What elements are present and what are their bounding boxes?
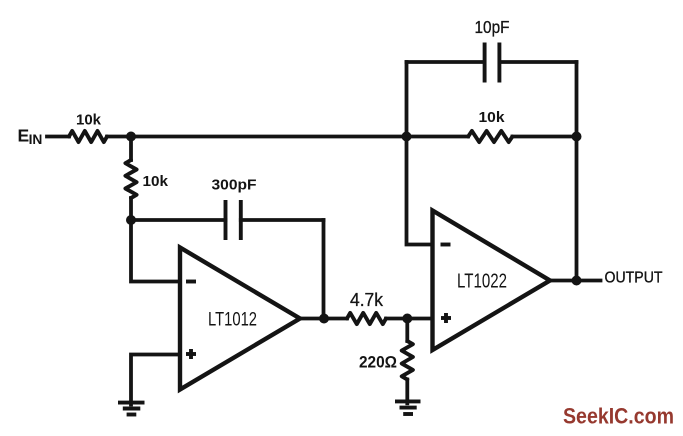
resistor R3 10k feedback [468,131,512,142]
capacitor C2 10pF [407,60,485,64]
svg-text:10k: 10k [479,109,506,126]
svg-text:LT1012: LT1012 [208,309,257,331]
U2 minus sign [441,243,451,247]
wire LT1022 output [550,279,601,283]
node LT1012 output junction [319,314,329,324]
U2 plus sign [441,316,451,320]
wire to LT1022 plus input [386,317,433,321]
wire LT1012 plus input to ground [131,355,180,405]
node A junction [126,132,136,142]
svg-text:SeekIC.com: SeekIC.com [563,404,674,429]
U1 plus sign [186,352,196,356]
ground GND1 [118,401,145,405]
svg-text:E: E [18,126,30,146]
svg-text:LT1022: LT1022 [457,271,507,293]
resistor R2 10k vertical [129,137,133,161]
resistor R1 10k [69,131,107,142]
op-amp U1 LT1012 [180,248,300,390]
capacitor C1 300pF [131,218,226,222]
resistor R5 220 ohm vertical [405,319,409,342]
svg-text:220Ω: 220Ω [359,354,397,372]
wire main top row [107,135,468,139]
node E junction [572,132,582,142]
ground GND2 [395,399,421,403]
svg-text:10pF: 10pF [475,17,510,37]
svg-text:IN: IN [29,132,43,147]
wire EIN lead [47,135,69,139]
wire C1 right leg down to LT1012 output [322,220,326,319]
svg-text:OUTPUT: OUTPUT [605,270,663,287]
svg-text:300pF: 300pF [212,177,257,194]
svg-text:10k: 10k [143,173,169,190]
wire right feedback leg [575,62,579,281]
op-amp U2 LT1022 [433,211,551,351]
wire LT1022 minus input up [407,62,433,245]
node B junction [126,215,136,225]
node C junction [402,314,412,324]
svg-text:4.7k: 4.7k [350,289,384,310]
wire node B to LT1012 inverting input [131,220,180,282]
resistor R4 4.7k [347,313,386,324]
U1 minus sign [186,280,196,284]
node OUTPUT junction [572,276,582,286]
svg-text:10k: 10k [76,112,102,129]
node D junction [402,132,412,142]
wire LT1012 output [300,317,347,321]
